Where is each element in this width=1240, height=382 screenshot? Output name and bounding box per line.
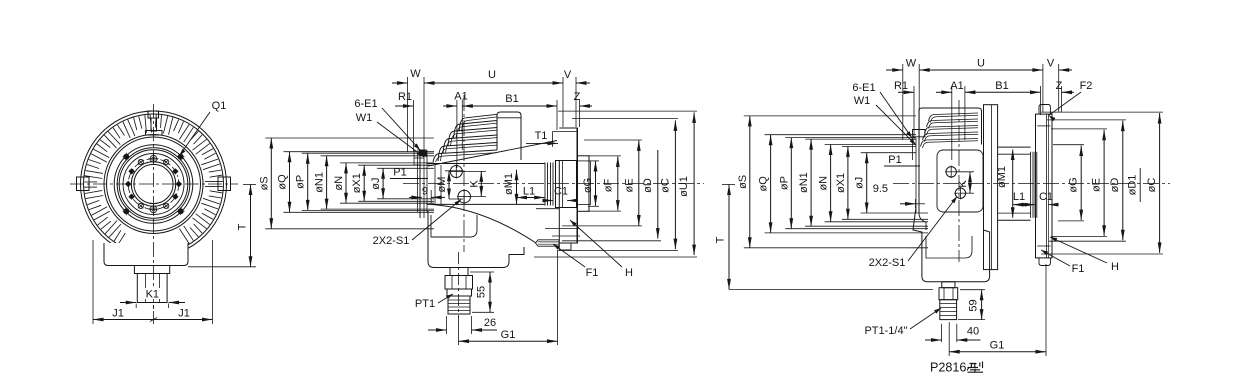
svg-text:øX1: øX1 xyxy=(835,173,847,193)
svg-text:L1: L1 xyxy=(523,186,535,198)
svg-text:øU1: øU1 xyxy=(678,176,690,197)
svg-text:Z: Z xyxy=(1056,80,1063,92)
svg-text:2X2-S1: 2X2-S1 xyxy=(869,257,906,269)
dimension dia S (right view) xyxy=(737,116,928,248)
pump fitting centerline (middle view) xyxy=(458,252,460,318)
dimension W (right view) xyxy=(886,58,917,141)
svg-text:W: W xyxy=(906,58,917,70)
section centerline vertical (right view) xyxy=(958,100,960,262)
dimension 26 (middle view) xyxy=(428,316,497,334)
svg-text:G1: G1 xyxy=(990,339,1005,351)
dimension V (middle view) xyxy=(564,69,590,127)
svg-text:6-E1: 6-E1 xyxy=(354,98,377,110)
svg-text:T1: T1 xyxy=(535,130,548,142)
dimension dia E right (middle view) xyxy=(562,140,642,226)
label Q1 with leader xyxy=(180,100,227,156)
svg-text:H: H xyxy=(625,267,633,279)
label PT1 with leader (middle view) xyxy=(415,294,453,310)
center line (middle view) xyxy=(403,183,704,185)
svg-text:øD: øD xyxy=(642,178,654,193)
svg-text:C1: C1 xyxy=(554,186,568,198)
label 6-E1 with leader (right view) xyxy=(852,82,912,138)
dimension diaM (middle view) xyxy=(436,171,463,199)
svg-text:øF: øF xyxy=(603,179,615,193)
dimension dia N (right view) xyxy=(818,145,928,222)
svg-text:26: 26 xyxy=(484,317,496,329)
svg-text:K: K xyxy=(469,180,481,188)
drain stub fitting (middle view) xyxy=(536,240,560,246)
svg-text:øD1: øD1 xyxy=(1127,175,1139,196)
dimension K (right view) xyxy=(957,172,974,193)
svg-text:øJ: øJ xyxy=(854,177,866,189)
svg-text:L1: L1 xyxy=(1013,191,1025,203)
svg-text:øJ: øJ xyxy=(370,177,382,189)
svg-text:V: V xyxy=(1047,58,1055,70)
label P1 (right view) xyxy=(884,154,920,166)
svg-text:G1: G1 xyxy=(501,329,516,341)
svg-text:59: 59 xyxy=(968,299,980,311)
svg-text:øC: øC xyxy=(1146,178,1158,193)
center line (right view) xyxy=(893,183,1170,185)
dimension 2X2-S1 with leader (middle view) xyxy=(373,200,461,248)
svg-text:øP: øP xyxy=(778,176,790,190)
pump body (right view) xyxy=(913,207,990,282)
label 6-E1 with leader (middle view) xyxy=(354,98,420,150)
dimension U (middle view) xyxy=(424,69,563,157)
mounting flange (middle view) xyxy=(545,128,580,250)
svg-text:P1: P1 xyxy=(393,167,406,179)
dimension dia C right (right view) xyxy=(1041,112,1163,254)
dimension 40 (right view) xyxy=(925,324,980,342)
suction fitting (right view) xyxy=(939,282,958,320)
svg-text:F2: F2 xyxy=(1080,80,1093,92)
dimension U (right view) xyxy=(919,58,1043,141)
bolt holes in section (right view) xyxy=(945,166,967,200)
svg-text:C1: C1 xyxy=(1039,191,1053,203)
suction fitting below pump (middle view) xyxy=(445,268,473,315)
lifting eyebolt xyxy=(146,111,163,135)
svg-text:P2816: P2816 xyxy=(930,361,966,375)
label W1 with leader (right view) xyxy=(854,95,916,145)
dimension dia S (middle view) xyxy=(258,138,434,229)
front view outer housing circle xyxy=(81,111,227,257)
svg-text:øQ: øQ xyxy=(277,174,289,190)
dimension W (middle view) xyxy=(392,68,421,152)
dimension C1 (middle view) xyxy=(543,186,578,203)
motor body face (right view) xyxy=(913,130,927,231)
bolt holes in section (middle view) xyxy=(450,165,472,204)
svg-text:øN1: øN1 xyxy=(798,172,810,193)
dimension J1 J1 xyxy=(93,240,213,324)
svg-text:H: H xyxy=(1111,261,1119,273)
dimension 9 (middle view) xyxy=(409,186,445,204)
dimension R1 (right view) xyxy=(894,80,914,140)
dimension dia F right (middle view) xyxy=(587,156,621,211)
svg-text:V: V xyxy=(564,69,572,81)
dimension dia D right (middle view) xyxy=(562,150,661,241)
dimension dia D1 label (right view) xyxy=(1127,168,1141,202)
svg-text:40: 40 xyxy=(967,326,979,338)
label F2 with leader (right view) xyxy=(1049,80,1093,121)
dimension dia J (right view) xyxy=(854,153,928,213)
ring grooves (right view) xyxy=(1031,152,1037,218)
svg-text:øS: øS xyxy=(258,176,270,190)
dimension dia N1 (right view) xyxy=(798,139,928,226)
cooling fins (front view) xyxy=(84,115,223,244)
frame face circle xyxy=(104,135,203,234)
svg-text:J1: J1 xyxy=(178,308,190,320)
svg-text:R1: R1 xyxy=(894,80,908,92)
svg-text:R1: R1 xyxy=(398,91,412,103)
coupling hub (middle view) xyxy=(556,161,577,244)
svg-text:55: 55 xyxy=(476,286,488,298)
svg-text:K: K xyxy=(957,180,969,188)
dimension A1 (middle view) xyxy=(443,91,468,169)
dimension Z (middle view) xyxy=(574,91,592,127)
dimension dia N (middle view) xyxy=(333,163,434,203)
svg-text:Q1: Q1 xyxy=(212,100,227,112)
svg-text:P1: P1 xyxy=(888,154,901,166)
svg-text:2X2-S1: 2X2-S1 xyxy=(373,235,410,247)
section centerline vertical (middle view) xyxy=(463,95,465,252)
label H with leader (right view) xyxy=(1050,237,1119,273)
bell housing arc (middle view) xyxy=(428,141,557,244)
svg-text:J1: J1 xyxy=(112,308,124,320)
svg-text:PT1: PT1 xyxy=(415,298,435,310)
motor fin block (right view) xyxy=(919,108,982,148)
svg-text:øX1: øX1 xyxy=(351,173,363,193)
mounting pad (right view) xyxy=(937,150,983,212)
svg-text:øM: øM xyxy=(436,177,448,193)
svg-text:T: T xyxy=(237,223,249,230)
dimension dia U1 right (middle view) xyxy=(534,111,697,257)
motor stepped fin profile (middle view) xyxy=(433,114,497,162)
svg-text:Z: Z xyxy=(574,91,581,103)
side tabs on housing xyxy=(77,177,231,191)
shaft section (middle view) xyxy=(427,164,545,205)
svg-text:K1: K1 xyxy=(146,289,159,301)
svg-text:øM1: øM1 xyxy=(996,166,1008,188)
pump mounting plate (right view) xyxy=(984,105,998,270)
dimension R1 (middle view) xyxy=(395,91,414,152)
dimension dia G right (middle view) xyxy=(582,161,599,206)
dimension T (right view) xyxy=(715,185,934,290)
dimension dia C right (middle view) xyxy=(558,118,678,250)
svg-text:øN: øN xyxy=(333,176,345,191)
svg-text:W: W xyxy=(410,68,421,80)
label F1 with leader (middle view) xyxy=(553,244,598,279)
svg-text:W1: W1 xyxy=(854,95,871,107)
svg-text:B1: B1 xyxy=(995,80,1008,92)
svg-text:øN1: øN1 xyxy=(314,172,326,193)
dimension 9.5 (right view) xyxy=(873,183,925,208)
flange bolts xyxy=(125,154,182,215)
svg-text:A1: A1 xyxy=(950,80,963,92)
dimension B1 (right view) xyxy=(965,80,1041,115)
dimension dia P (middle view) xyxy=(295,153,434,210)
svg-text:øD: øD xyxy=(1109,178,1121,193)
label H with leader (middle view) xyxy=(570,220,633,279)
svg-text:9: 9 xyxy=(422,186,428,198)
svg-text:B1: B1 xyxy=(505,93,518,105)
svg-text:T: T xyxy=(715,236,727,243)
dimension K (middle view) xyxy=(462,171,486,196)
dimension dia X1 (right view) xyxy=(835,146,928,219)
front flange circles xyxy=(114,145,193,224)
svg-text:F1: F1 xyxy=(1072,263,1085,275)
dimension K1 xyxy=(120,288,185,308)
pump shaft (right view) xyxy=(998,147,1031,220)
terminal box on motor top (middle view) xyxy=(497,112,521,160)
svg-text:øP: øP xyxy=(295,175,307,189)
dimension L1 (middle view) xyxy=(517,186,545,200)
svg-text:øE: øE xyxy=(1090,178,1102,192)
label F1 with leader (right view) xyxy=(1041,250,1084,275)
dimension dia P (right view) xyxy=(778,138,928,229)
dimension 2X2-S1 with leader (right view) xyxy=(869,197,957,270)
dimension dia N1 (middle view) xyxy=(314,156,434,209)
dimension diaM1 (right view) xyxy=(996,150,1015,218)
dimension dia G right (right view) xyxy=(1053,145,1084,221)
dimension C1 (right view) xyxy=(1025,191,1059,207)
dimension dia J (middle view) xyxy=(370,168,434,199)
dimension T1 (middle view) xyxy=(526,130,558,147)
dimension dia Q (right view) xyxy=(758,135,928,233)
dimension B1 (middle view) xyxy=(462,93,557,130)
tie-rod bolt heads xyxy=(122,153,184,215)
dimension V (right view) xyxy=(1047,58,1072,113)
svg-text:øG: øG xyxy=(582,178,594,193)
svg-text:U: U xyxy=(488,69,496,81)
pump body (middle view) xyxy=(428,209,559,268)
ring grooves (middle view) xyxy=(545,163,556,206)
junction box xyxy=(104,243,188,310)
svg-text:PT1-1/4": PT1-1/4" xyxy=(864,325,907,337)
bolt circle (dash-dot) xyxy=(128,159,179,210)
svg-text:øQ: øQ xyxy=(758,176,770,192)
dimension G1 (right view) xyxy=(949,264,1046,356)
pilot spigot (middle view) xyxy=(578,156,591,212)
dimension 59 (right view) xyxy=(958,290,985,320)
dimension diaM1 (middle view) xyxy=(503,170,518,205)
svg-text:U: U xyxy=(977,58,985,70)
label W1 with leader (middle view) xyxy=(356,112,424,157)
label PT1-1/4 with leader (right view) xyxy=(864,308,941,337)
label P1 (middle view) xyxy=(390,167,428,179)
dimension T (front view) xyxy=(188,185,256,267)
svg-text:9.5: 9.5 xyxy=(873,183,888,195)
svg-text:øM1: øM1 xyxy=(503,173,515,195)
svg-text:W1: W1 xyxy=(356,112,373,124)
dimension dia Q (middle view) xyxy=(277,152,435,213)
svg-text:øG: øG xyxy=(1067,177,1079,192)
motor left face / shim stack (middle view) xyxy=(414,149,427,218)
dimension G1 (middle view) xyxy=(459,250,558,345)
svg-text:øC: øC xyxy=(660,178,672,193)
svg-text:øS: øS xyxy=(737,175,749,189)
dimension dia X1 (middle view) xyxy=(351,165,434,201)
svg-text:A1: A1 xyxy=(454,91,467,103)
dimension 55 (middle view) xyxy=(470,272,494,312)
dimension A1 (right view) xyxy=(936,80,965,160)
dimension dia D right (right view) xyxy=(1047,120,1126,241)
svg-text:øE: øE xyxy=(624,178,636,192)
dimension dia E right (right view) xyxy=(1051,129,1107,237)
output flange (right view) xyxy=(1036,105,1053,266)
svg-text:6-E1: 6-E1 xyxy=(852,82,875,94)
svg-text:F1: F1 xyxy=(586,267,599,279)
centerlines front view xyxy=(70,104,238,312)
svg-text:øN: øN xyxy=(818,176,830,191)
dimension Z (right view) xyxy=(1056,80,1074,112)
model label P2816 xyxy=(930,361,983,375)
dimension L1 (right view) xyxy=(1013,191,1033,207)
